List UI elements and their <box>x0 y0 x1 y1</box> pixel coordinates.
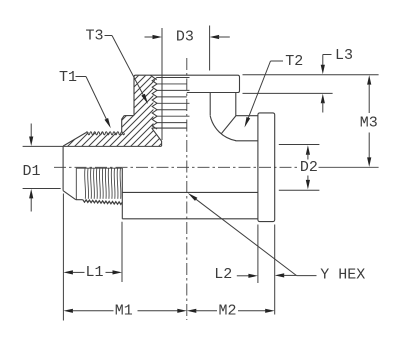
dimension D3 label <box>176 28 194 45</box>
dimension M2 arrows and line <box>187 309 275 313</box>
svg-text:L2: L2 <box>214 266 232 283</box>
leader T1 <box>76 77 111 129</box>
dimension D2 label <box>300 159 318 176</box>
hex left face (below centerline) <box>121 168 123 219</box>
top port thread crest/root lines <box>157 78 190 123</box>
extension line: top face (for L3/M3) <box>243 74 379 76</box>
bore line / D1 upper extension line <box>23 145 162 147</box>
top port mouth chamfer <box>151 75 157 80</box>
svg-text:T1: T1 <box>59 69 77 86</box>
male thread T1 crest profile (top, sectioned) <box>86 132 125 135</box>
right port flange (rectangle) <box>258 113 275 222</box>
leader Y HEX <box>188 193 317 276</box>
svg-text:D3: D3 <box>176 28 194 45</box>
dimension L1 label <box>85 264 103 281</box>
top port neck right wall <box>235 93 237 116</box>
svg-text:L1: L1 <box>85 264 103 281</box>
dimension D3 arrows and line <box>145 35 230 39</box>
svg-text:T2: T2 <box>285 53 303 70</box>
vertical centerline (top port axis) <box>186 58 188 320</box>
top port internal thread profile (sectioned teeth) <box>152 78 157 130</box>
svg-text:M2: M2 <box>218 302 236 319</box>
label T3 <box>85 28 103 45</box>
svg-text:M1: M1 <box>115 302 133 319</box>
label T2 <box>285 53 303 70</box>
svg-text:D2: D2 <box>300 159 318 176</box>
dimension D1 label <box>22 163 40 180</box>
svg-text:L3: L3 <box>335 47 353 64</box>
dimension D2 arrows <box>306 145 310 189</box>
dimension D2 extension lines <box>279 145 320 191</box>
dimension M3 arrows and line <box>367 75 371 167</box>
extension line: flange underside (for L3) <box>243 92 333 94</box>
dimension M1 label <box>115 302 133 319</box>
leader T2 <box>245 61 284 128</box>
top port left wall and top edge <box>134 75 240 115</box>
dimension M1 arrows and line <box>63 309 186 313</box>
dimension M2 label <box>218 302 236 319</box>
male flare chamfer bottom <box>63 191 76 200</box>
hex top flat right segment <box>236 115 258 117</box>
svg-text:T3: T3 <box>85 28 103 45</box>
dimension M3 label <box>360 115 378 132</box>
elbow outer wall below flange <box>209 93 211 116</box>
leader T3 <box>105 36 149 105</box>
hex corner edge upper (right of elbow) <box>236 140 258 142</box>
hex bottom flat <box>122 218 258 220</box>
section hatch (cross-hatched cut material of body and top-port wall) <box>40 60 357 160</box>
male shank flat bottom <box>76 199 83 201</box>
top port tap hole bottom <box>152 127 187 129</box>
svg-text:Y HEX: Y HEX <box>320 266 365 283</box>
elbow fillet arc to hex flat <box>210 116 236 141</box>
label Y HEX <box>320 266 365 283</box>
dimension L1 arrows and line <box>63 270 122 274</box>
elbow chamfer edge <box>221 116 236 134</box>
hex top flat left segment <box>124 115 134 117</box>
dimension D3 extension lines <box>162 26 210 141</box>
svg-text:D1: D1 <box>22 163 40 180</box>
svg-text:M3: M3 <box>360 115 378 132</box>
dimension D1 arrows <box>29 124 33 212</box>
dimension L3 leader and arrows <box>321 55 332 113</box>
label T1 <box>59 69 77 86</box>
male flare chamfer top (37 deg cone) <box>63 133 86 146</box>
horizontal centerline (main run axis) <box>54 166 379 168</box>
dimension D1 lower extension line <box>23 188 61 190</box>
body step: thread end to hex top flat <box>122 116 125 133</box>
dimension L3 label <box>335 47 353 64</box>
hex corner edge lower (Y HEX flat) <box>122 191 258 193</box>
male thread external view (coil lines, below centerline) <box>76 168 122 204</box>
extension line: port face (M2 right) <box>274 225 276 315</box>
top port drill cone to bore <box>152 128 162 146</box>
dimension L2 label <box>214 266 232 283</box>
dimension L2 extension line <box>257 225 259 284</box>
dimension L2 arrows and line <box>237 273 297 278</box>
male nose face (tube end, diameter D1) <box>62 146 64 190</box>
dimension L1 extension lines <box>63 194 122 321</box>
